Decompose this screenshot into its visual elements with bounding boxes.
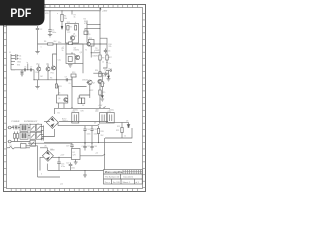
resistor R16 inside VAS bbox=[68, 57, 72, 62]
label C12 bbox=[72, 111, 75, 113]
svg-text:2k2: 2k2 bbox=[54, 41, 57, 43]
wire x72 lower column bbox=[71, 75, 73, 108]
svg-text:35V: 35V bbox=[96, 110, 100, 112]
wire rail7 bbox=[28, 142, 72, 144]
wire x87 to box bbox=[86, 29, 88, 43]
transistor Q8 bbox=[98, 79, 102, 83]
transformer T1 core bars row2 bbox=[22, 133, 26, 138]
node dot rail3-x34 bbox=[33, 79, 34, 80]
svg-text:C18: C18 bbox=[94, 146, 97, 148]
ground (input) bbox=[20, 72, 23, 76]
transistor Q6 bbox=[64, 98, 68, 102]
label +35V psu bbox=[98, 105, 103, 107]
title block revision cells bbox=[123, 170, 142, 174]
svg-text:LM08: LM08 bbox=[50, 150, 55, 152]
svg-text:Mono amplifier: Mono amplifier bbox=[105, 170, 123, 174]
transistor Q5 bbox=[87, 42, 90, 45]
svg-text:C2: C2 bbox=[40, 29, 42, 31]
label U1 bbox=[89, 38, 92, 40]
node dot x72-y44 bbox=[71, 43, 72, 44]
label J1 bbox=[9, 52, 11, 54]
svg-text:12V: 12V bbox=[73, 155, 77, 157]
svg-text:TR5: TR5 bbox=[89, 38, 92, 40]
regulator U2 7812 bbox=[72, 149, 81, 160]
svg-text:+12: +12 bbox=[95, 153, 98, 155]
relay contact S1b bbox=[36, 124, 42, 131]
wire output stub bbox=[106, 71, 110, 77]
svg-text:B1: B1 bbox=[58, 113, 60, 115]
current source arrow A1 bbox=[61, 26, 63, 29]
svg-text:2N3055: 2N3055 bbox=[82, 80, 88, 82]
node dot rail2-x56.5 bbox=[56, 43, 57, 44]
power entry label POWER bbox=[12, 121, 20, 123]
svg-text:C19: C19 bbox=[66, 146, 69, 148]
resistor R3 inside block bbox=[75, 26, 77, 31]
label R11 bbox=[59, 86, 62, 88]
svg-text:1k: 1k bbox=[74, 17, 76, 19]
label R6 bbox=[44, 41, 56, 43]
wire rail5 mid bbox=[58, 122, 97, 126]
border tick marks top bbox=[11, 5, 137, 8]
label C4 bbox=[19, 56, 21, 58]
svg-text:Cc: Cc bbox=[69, 83, 71, 85]
transformer T1 row1 bbox=[20, 124, 28, 131]
label R5 bbox=[84, 30, 86, 32]
svg-text:Vb: Vb bbox=[58, 93, 60, 95]
label rail5 arrow bbox=[97, 124, 100, 126]
wire x34 ground stub bbox=[37, 80, 39, 87]
node dot bridge-right bbox=[71, 121, 72, 122]
svg-text:0R22: 0R22 bbox=[89, 90, 93, 92]
label D1 D2 bbox=[78, 96, 84, 107]
label R1 bbox=[64, 16, 67, 20]
border tick marks bottom bbox=[11, 189, 137, 192]
node dot rail7-x85 bbox=[84, 143, 85, 144]
svg-text:1k5: 1k5 bbox=[103, 76, 106, 78]
svg-text:R11: R11 bbox=[59, 86, 62, 88]
node dot rail8-x85 bbox=[84, 170, 85, 171]
label R15 bbox=[102, 92, 105, 94]
fuse F1 bbox=[7, 147, 21, 149]
wire rail6 ground rail bbox=[44, 142, 132, 144]
svg-text:GND: GND bbox=[17, 62, 22, 64]
transistor Q10 input pair A bbox=[37, 67, 41, 71]
transistor Q11 input pair B bbox=[46, 67, 50, 71]
label node in bbox=[27, 62, 28, 64]
svg-text:Q11: Q11 bbox=[46, 64, 49, 66]
label Q6 bbox=[58, 98, 60, 100]
svg-text:TR2: TR2 bbox=[67, 22, 70, 24]
capacitor CX2 bbox=[17, 125, 18, 129]
label C19 bbox=[66, 146, 69, 148]
wire x72 column bbox=[72, 40, 83, 73]
wire input main bbox=[11, 69, 34, 71]
transformer T1 core bars row1 bbox=[22, 125, 26, 130]
resistor R13 bbox=[71, 74, 76, 77]
label C5 bbox=[19, 59, 21, 61]
label C10 bbox=[104, 70, 107, 72]
svg-text:R13: R13 bbox=[72, 72, 75, 74]
label C17 bbox=[87, 146, 90, 148]
svg-text:C15: C15 bbox=[94, 129, 97, 131]
svg-text:1: 1 bbox=[41, 47, 42, 49]
label C16 bbox=[61, 164, 64, 166]
label +35V bbox=[102, 11, 108, 13]
label B1 bbox=[58, 113, 60, 115]
ground (C1) bbox=[48, 35, 52, 37]
wire Q10 Q11 stubs bbox=[39, 65, 48, 80]
svg-text:1k: 1k bbox=[62, 50, 64, 52]
wire rail3 bbox=[34, 79, 72, 81]
ground (U2) bbox=[74, 160, 78, 165]
label C9 bbox=[65, 77, 67, 79]
label x87 bbox=[84, 19, 86, 21]
connector J2 secondary bbox=[41, 126, 44, 141]
svg-text:+12V: +12V bbox=[60, 155, 65, 157]
wire bridge bottom bbox=[42, 129, 55, 140]
node dot box down bbox=[91, 52, 92, 53]
wire output node rail bbox=[93, 72, 108, 74]
ground (VAS) bbox=[68, 65, 72, 67]
svg-text:LM394: LM394 bbox=[74, 50, 80, 52]
node dot y24.5 bbox=[99, 24, 100, 25]
bridge rectifier B2 bbox=[42, 150, 53, 161]
wire fuse to column bbox=[26, 146, 38, 177]
label C20 bbox=[66, 163, 69, 165]
svg-text:R6: R6 bbox=[44, 41, 46, 43]
svg-text:R3: R3 bbox=[74, 24, 76, 26]
wire power entry row2 bbox=[11, 132, 36, 142]
node dot rail1-x62 bbox=[61, 10, 62, 11]
node dot x72-y53 bbox=[71, 52, 72, 53]
wire rail1 to x72 bbox=[71, 11, 73, 15]
capacitor C14 bbox=[83, 126, 86, 143]
svg-text:VR1: VR1 bbox=[45, 13, 49, 15]
wire bridge top bbox=[54, 108, 56, 114]
transistor Q3 inside VAS bbox=[75, 55, 79, 59]
label +12V bbox=[60, 155, 65, 157]
node dot rail6-x98 bbox=[98, 142, 99, 143]
wire x100 vertical bbox=[99, 11, 101, 55]
svg-text:in: in bbox=[27, 62, 28, 64]
LED D3 bbox=[127, 122, 130, 128]
svg-text:C14: C14 bbox=[87, 129, 90, 131]
sheet border inner frame bbox=[7, 8, 143, 189]
relay contact S1a bbox=[30, 124, 36, 131]
label F1 bbox=[10, 145, 12, 147]
label C13 bbox=[107, 111, 110, 113]
capacitor C7 series bbox=[30, 68, 31, 71]
title block column line row2 bbox=[120, 174, 122, 179]
svg-text:C17: C17 bbox=[87, 146, 90, 148]
capacitor C6 series bbox=[24, 68, 25, 71]
svg-text:POWER: POWER bbox=[12, 121, 20, 123]
wire bridge2 bottom bbox=[46, 164, 48, 171]
svg-text:R9: R9 bbox=[102, 58, 104, 60]
capacitor C19 bbox=[70, 143, 74, 148]
capacitor C12 electrolytic bbox=[72, 113, 79, 124]
svg-text:C4: C4 bbox=[19, 56, 21, 58]
capacitor C13 electrolytic bbox=[107, 113, 114, 124]
wire bridge2 left bbox=[40, 157, 44, 170]
label R14 bbox=[95, 70, 98, 72]
svg-text:0V: 0V bbox=[94, 123, 97, 125]
svg-text:T1: T1 bbox=[20, 142, 22, 144]
relay contact S2b bbox=[36, 132, 42, 139]
wire box down bbox=[91, 46, 100, 58]
svg-text:C9: C9 bbox=[65, 77, 67, 79]
label R12 bbox=[74, 77, 77, 79]
capacitor C16 bbox=[57, 157, 61, 170]
svg-text:T1: T1 bbox=[85, 50, 87, 52]
transistor Q2 bbox=[52, 66, 56, 70]
resistor R21 bbox=[121, 128, 123, 133]
svg-text:C6: C6 bbox=[24, 67, 26, 69]
wire pair y24.5 bbox=[87, 24, 100, 26]
svg-text:LM317: LM317 bbox=[62, 121, 68, 123]
svg-text:R5: R5 bbox=[84, 30, 86, 32]
resistor R5 bbox=[84, 31, 88, 35]
label B2 bbox=[51, 149, 53, 151]
wire right branch psu bbox=[105, 122, 132, 138]
input connector J1 bbox=[11, 54, 15, 70]
resistor R10 feedback bbox=[106, 55, 108, 60]
terminal output bbox=[110, 70, 112, 72]
label R7 bbox=[74, 15, 76, 19]
svg-text:100n: 100n bbox=[52, 32, 56, 34]
wire reg out bbox=[80, 155, 103, 157]
svg-text:100n: 100n bbox=[71, 168, 75, 170]
label Q2 bbox=[51, 73, 54, 75]
wire rail8 bbox=[48, 170, 105, 172]
svg-text:63V: 63V bbox=[81, 111, 85, 113]
label C18 bbox=[94, 146, 97, 148]
svg-text:C2a: C2a bbox=[58, 60, 61, 62]
node dot rail2-x100 bbox=[99, 43, 100, 44]
svg-text:1k: 1k bbox=[102, 62, 104, 64]
wire +V rail1 bbox=[45, 10, 101, 12]
label C15 bbox=[94, 129, 97, 131]
svg-text:PDF: PDF bbox=[10, 6, 31, 20]
border tick marks left bbox=[4, 14, 7, 188]
title block column lines row3 bbox=[112, 179, 135, 184]
resistor R1 bbox=[61, 11, 63, 28]
label R10 bbox=[109, 44, 112, 48]
wire input down to rail3 bbox=[33, 70, 35, 80]
svg-text:Cz: Cz bbox=[109, 63, 111, 65]
resistor R2 inside block bbox=[67, 26, 69, 31]
label U1 values bbox=[93, 48, 100, 58]
zener arrow bbox=[108, 76, 110, 78]
label R20 bbox=[101, 131, 104, 133]
wire x56.5 down bbox=[56, 80, 58, 88]
svg-text:J1: J1 bbox=[9, 52, 11, 54]
node dot rail1-x50 bbox=[49, 10, 50, 11]
svg-text:+35V: +35V bbox=[102, 11, 108, 13]
svg-text:100n: 100n bbox=[94, 134, 98, 136]
svg-text:R6a: R6a bbox=[58, 42, 61, 44]
wire x87 vertical upper bbox=[86, 21, 88, 29]
label C13a bbox=[95, 111, 98, 113]
PDF badge bbox=[0, 0, 45, 26]
node dot rail1-x72 bbox=[71, 10, 72, 11]
svg-text:J2: J2 bbox=[37, 124, 39, 126]
svg-text:1M: 1M bbox=[40, 76, 43, 78]
svg-text:D2: D2 bbox=[82, 105, 84, 107]
svg-text:a12: a12 bbox=[60, 184, 63, 186]
connector jack P1 bbox=[8, 126, 12, 129]
node dot rail6-x85 bbox=[84, 142, 85, 143]
power entry label FILTER bbox=[24, 121, 38, 123]
node dot rail3-x56.5 bbox=[56, 79, 57, 80]
resistor R8 bbox=[69, 42, 73, 45]
svg-text:P05: P05 bbox=[51, 73, 54, 75]
node dot rail1-x100 bbox=[99, 10, 100, 11]
svg-text:Q9: Q9 bbox=[88, 34, 90, 36]
node dot input x27.8 bbox=[27, 69, 28, 70]
svg-text:C5: C5 bbox=[19, 59, 21, 61]
svg-text:AC: AC bbox=[45, 145, 48, 148]
svg-text:b: b bbox=[75, 22, 76, 24]
svg-text:C22: C22 bbox=[67, 32, 70, 34]
thermistor TH1 bbox=[21, 144, 27, 148]
wire title area vertical bbox=[104, 138, 106, 170]
node dot y28.5 bbox=[99, 28, 100, 29]
wire bridge2 top bbox=[40, 148, 47, 151]
svg-text:Q7: Q7 bbox=[93, 83, 95, 85]
label R21 bbox=[116, 130, 119, 132]
capacitor C17 bbox=[83, 143, 86, 150]
label LM bbox=[62, 121, 68, 123]
label OUT bbox=[108, 69, 113, 71]
sheet border outer frame bbox=[4, 5, 146, 192]
wire rail2 bbox=[38, 43, 108, 45]
label title row2 left bbox=[105, 177, 120, 179]
svg-text:C17a: C17a bbox=[82, 146, 86, 148]
diode D2 bbox=[81, 98, 84, 104]
wire Q7 links bbox=[72, 77, 90, 98]
svg-text:22k: 22k bbox=[109, 46, 112, 48]
label speckle values bbox=[12, 13, 126, 186]
ground (output) bbox=[107, 79, 111, 81]
svg-text:470u: 470u bbox=[61, 166, 65, 168]
label R8 bbox=[74, 48, 80, 52]
bridge rectifier B1 bbox=[46, 116, 58, 128]
PDF badge text bbox=[10, 6, 31, 20]
wire bridge right bbox=[59, 121, 108, 123]
ground (x37.5) bbox=[35, 52, 39, 54]
node dot bridge2 out bbox=[58, 157, 59, 158]
capacitor C13a electrolytic bbox=[100, 113, 107, 124]
node dot rail7-x92 bbox=[91, 143, 92, 144]
node +35V terminal arrow bbox=[99, 8, 101, 11]
svg-text:100R: 100R bbox=[95, 50, 100, 52]
capacitor C3 bbox=[104, 49, 107, 54]
node dot rail2-x70 bbox=[69, 43, 70, 44]
svg-text:R20: R20 bbox=[101, 131, 104, 133]
label C1 bbox=[52, 30, 56, 34]
ground arrow (x102.3) bbox=[101, 96, 105, 102]
resistor R14 bbox=[99, 72, 101, 77]
label R9 bbox=[102, 58, 104, 60]
svg-text:4700u: 4700u bbox=[109, 110, 114, 112]
capacitor C5 bbox=[16, 57, 19, 60]
svg-text:AC IN: AC IN bbox=[12, 125, 17, 128]
transistor Q1 bbox=[70, 36, 74, 40]
svg-text:4R7: 4R7 bbox=[109, 57, 112, 59]
capacitor C8 shunt bbox=[21, 70, 24, 73]
connector jack P2 bbox=[8, 140, 12, 143]
wire box to rail3 bbox=[57, 86, 65, 108]
resistor R6 on rail2 bbox=[48, 43, 54, 45]
wire branch up x27.8 bbox=[27, 64, 29, 70]
svg-text:R21: R21 bbox=[117, 126, 120, 128]
wire feedback loop bbox=[100, 38, 107, 68]
svg-text:F1: F1 bbox=[10, 145, 12, 147]
capacitor C15 bbox=[90, 126, 93, 143]
svg-text:R2: R2 bbox=[70, 27, 72, 29]
label title row3 cells bbox=[105, 181, 140, 184]
wire bridge2 right bbox=[51, 156, 72, 158]
relay contact S2a bbox=[30, 132, 36, 139]
diode D1 bbox=[78, 98, 81, 104]
bias network box bbox=[57, 95, 68, 103]
label Q11 bbox=[46, 64, 49, 66]
label R2 bbox=[70, 27, 72, 29]
sub-circuit box VAS bbox=[66, 44, 83, 64]
node dot rail4-x72 bbox=[71, 107, 72, 108]
transistor Q7 power bbox=[87, 80, 93, 85]
label C3 bbox=[108, 51, 110, 53]
wire power entry row1 bbox=[11, 127, 36, 129]
label Q10 bbox=[36, 64, 39, 66]
svg-text:4700u: 4700u bbox=[73, 110, 78, 112]
svg-text:R2a: R2a bbox=[36, 72, 39, 74]
wire power entry right drop bbox=[36, 131, 42, 144]
resistor R9 bbox=[99, 55, 101, 73]
svg-text:C3: C3 bbox=[108, 51, 110, 53]
svg-text:Rb: Rb bbox=[50, 78, 52, 80]
wire bridge left AC bbox=[44, 121, 50, 123]
resistor R22 bbox=[101, 82, 103, 87]
svg-text:2k2: 2k2 bbox=[101, 135, 104, 137]
border tick marks right bbox=[143, 14, 146, 188]
svg-text:n4: n4 bbox=[108, 75, 110, 77]
capacitor C2 input coupling bbox=[36, 26, 39, 44]
capacitor C20 bbox=[69, 163, 73, 171]
wire input-stage box Q-block bbox=[66, 24, 79, 44]
label 0V bbox=[94, 123, 97, 125]
svg-text:OUT: OUT bbox=[108, 69, 113, 71]
resistor RX2 bbox=[16, 134, 18, 139]
ground (x37.5 low) bbox=[35, 87, 39, 89]
label C2 bbox=[40, 29, 42, 31]
svg-text:Fe: DB: Fe: DB bbox=[113, 182, 120, 184]
svg-text:The B-Class 50: The B-Class 50 bbox=[105, 177, 120, 179]
svg-text:C20: C20 bbox=[66, 163, 69, 165]
label Q1 bbox=[73, 34, 75, 36]
label title Mono amplifier bbox=[105, 170, 123, 174]
node dot out-x100 bbox=[99, 73, 100, 74]
svg-text:SIG: SIG bbox=[17, 65, 21, 67]
svg-text:Q8: Q8 bbox=[103, 83, 105, 85]
transformer T1 row2 bbox=[20, 132, 28, 139]
wire x56.5 branch bbox=[53, 44, 57, 80]
node dot rail4-x100 bbox=[99, 107, 100, 108]
svg-text:LM495: LM495 bbox=[93, 56, 99, 58]
wire VAS inner divider bbox=[66, 54, 75, 64]
svg-text:R14: R14 bbox=[95, 70, 98, 72]
